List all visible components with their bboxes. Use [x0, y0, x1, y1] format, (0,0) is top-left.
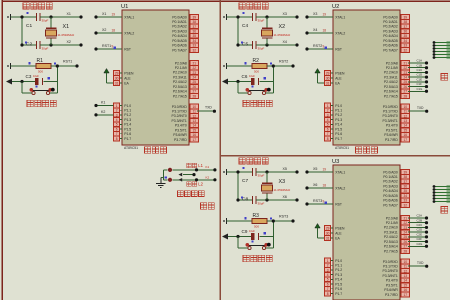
- svg-text:11.0592MHz: 11.0592MHz: [274, 188, 291, 192]
- svg-text:P0.0/AD0: P0.0/AD0: [383, 170, 398, 174]
- svg-text:P3.2/INT0: P3.2/INT0: [172, 114, 187, 118]
- wire net C2F from U3 P2.5: [408, 237, 428, 243]
- svg-text:C1B: C1B: [417, 63, 423, 67]
- svg-text:33: 33: [404, 199, 408, 203]
- svg-text:31: 31: [115, 81, 119, 85]
- svg-text:K2: K2: [101, 110, 105, 114]
- svg-text:XTAL2: XTAL2: [124, 31, 134, 35]
- net K1 label: [206, 165, 210, 169]
- net K2 label: [206, 175, 210, 179]
- svg-text:P2.4/A12: P2.4/A12: [173, 80, 187, 84]
- svg-text:P2.1/A9: P2.1/A9: [175, 66, 187, 70]
- svg-text:P0.4/AD4: P0.4/AD4: [383, 34, 398, 38]
- svg-text:2: 2: [327, 264, 329, 268]
- svg-text:P0.6/AD6: P0.6/AD6: [383, 199, 398, 203]
- svg-text:XTAL2: XTAL2: [335, 186, 345, 190]
- svg-text:P1.4: P1.4: [335, 278, 342, 282]
- svg-text:P3.6/WR: P3.6/WR: [384, 133, 398, 137]
- svg-text:P2.4/A12: P2.4/A12: [384, 235, 398, 239]
- svg-text:L1: L1: [198, 163, 203, 168]
- label: display (bottom): [441, 207, 448, 214]
- svg-text:39: 39: [404, 15, 408, 19]
- svg-text:P2.2/A10: P2.2/A10: [173, 71, 187, 75]
- wire net C2B from U3 P2.1: [408, 218, 428, 224]
- svg-text:15: 15: [404, 128, 408, 132]
- wire arrow to C6: [228, 80, 251, 83]
- svg-text:K1: K1: [206, 165, 210, 169]
- U2 label (MCU): [356, 147, 378, 153]
- svg-text:ALE: ALE: [124, 76, 131, 80]
- svg-text:C2E: C2E: [417, 232, 423, 236]
- svg-text:XTAL2: XTAL2: [335, 31, 345, 35]
- wire net C1D from U2 P2.3: [408, 73, 428, 79]
- svg-text:6: 6: [327, 282, 329, 286]
- svg-text:X3: X3: [313, 12, 317, 16]
- wire VCC to EA pin: [318, 82, 334, 84]
- svg-text:P1.3: P1.3: [335, 273, 342, 277]
- capacitor C8 30pF: [241, 196, 265, 205]
- wire net C1C from U2 P2.2: [408, 68, 428, 74]
- svg-text:14: 14: [193, 124, 197, 128]
- U2 pin stubs and pin numbers: [325, 15, 410, 142]
- U1 part number AT89C51: [124, 146, 138, 150]
- svg-text:37: 37: [404, 180, 408, 184]
- svg-text:P2.7/A15: P2.7/A15: [384, 94, 398, 98]
- wire to C8: [236, 198, 252, 201]
- svg-text:9: 9: [323, 200, 325, 204]
- wire net X3 to XTAL1: [305, 12, 333, 18]
- svg-text:X4: X4: [283, 40, 287, 44]
- wire net C1A from U2 P2.0: [408, 59, 428, 65]
- svg-text:P1.0: P1.0: [335, 104, 342, 108]
- svg-text:P3.5/T1: P3.5/T1: [386, 283, 398, 287]
- svg-text:P0.6/AD6: P0.6/AD6: [172, 44, 187, 48]
- svg-text:5: 5: [327, 123, 329, 127]
- svg-text:500: 500: [254, 70, 259, 74]
- svg-text:4: 4: [327, 118, 329, 122]
- svg-text:12: 12: [193, 114, 197, 118]
- svg-text:P0.3/AD3: P0.3/AD3: [383, 184, 398, 188]
- wire left branch vertical: [21, 82, 23, 94]
- svg-text:TXD: TXD: [417, 261, 424, 265]
- power terminal T1a: [7, 14, 10, 20]
- label: reset circuit (section 3): [243, 255, 272, 261]
- wire switch K1 row: [172, 168, 216, 171]
- svg-text:P2.0/A8: P2.0/A8: [175, 61, 187, 65]
- power terminal T3b: [223, 218, 226, 224]
- terminal arrow on K2 row: [178, 178, 182, 182]
- svg-text:1: 1: [116, 104, 118, 108]
- svg-text:RST3: RST3: [313, 199, 322, 203]
- svg-text:K1: K1: [101, 101, 105, 105]
- U2 part number AT89C51: [335, 146, 349, 150]
- svg-text:C6: C6: [242, 74, 248, 79]
- wire switch K2 row: [172, 178, 216, 181]
- svg-text:P0.5/AD5: P0.5/AD5: [172, 39, 187, 43]
- wire C5 to node X4: [256, 40, 299, 46]
- svg-text:10: 10: [193, 105, 197, 109]
- svg-text:15: 15: [193, 128, 197, 132]
- svg-text:C1: C1: [26, 23, 32, 29]
- partition line vertical: [219, 0, 221, 300]
- svg-text:34: 34: [193, 39, 197, 43]
- svg-text:7: 7: [116, 132, 118, 136]
- svg-text:P0.2/AD2: P0.2/AD2: [172, 25, 187, 29]
- svg-text:36: 36: [404, 184, 408, 188]
- svg-text:P1.4: P1.4: [124, 123, 131, 127]
- svg-text:P1.2: P1.2: [335, 268, 342, 272]
- svg-text:8: 8: [116, 137, 118, 141]
- svg-text:24: 24: [404, 230, 408, 234]
- svg-text:16: 16: [404, 288, 408, 292]
- svg-text:22: 22: [404, 221, 408, 225]
- svg-text:3: 3: [116, 113, 118, 117]
- svg-text:P0.7/AD7: P0.7/AD7: [383, 203, 398, 207]
- U3 pin stubs and pin numbers: [325, 170, 410, 297]
- wire net X4 to XTAL2: [305, 28, 333, 34]
- svg-text:P1.6: P1.6: [335, 287, 342, 291]
- svg-text:32: 32: [193, 48, 197, 52]
- wire C7 to node X5: [256, 167, 299, 173]
- wire net C2A from U3 P2.0: [408, 214, 428, 220]
- svg-text:30pF: 30pF: [258, 173, 265, 177]
- svg-text:P3.2/INT0: P3.2/INT0: [383, 114, 398, 118]
- svg-text:P1.6: P1.6: [335, 132, 342, 136]
- wire terminal to R1: [11, 65, 37, 67]
- crystal X2 11.0592MHz: [262, 17, 291, 45]
- svg-text:P2.6/A14: P2.6/A14: [384, 90, 398, 94]
- capacitor C7 30pF: [242, 167, 265, 184]
- svg-text:24: 24: [404, 75, 408, 79]
- wire net X1 to XTAL1: [94, 12, 122, 18]
- svg-text:P2.5/A13: P2.5/A13: [384, 85, 398, 89]
- switch K2 knob: [168, 178, 172, 182]
- svg-text:P2.2/A10: P2.2/A10: [384, 226, 398, 230]
- wire vertical branch: [236, 170, 239, 200]
- label: slave L1: [187, 163, 204, 168]
- wire C9 to right branch: [260, 236, 274, 238]
- svg-text:30pF: 30pF: [258, 201, 265, 205]
- svg-text:29: 29: [326, 71, 330, 75]
- label: reset circuit (section 2): [243, 100, 272, 106]
- svg-text:P2.0/A8: P2.0/A8: [386, 216, 398, 220]
- resistor R1 500: [28, 58, 56, 74]
- svg-text:1: 1: [327, 259, 329, 263]
- svg-text:27: 27: [193, 90, 197, 94]
- svg-text:XTAL1: XTAL1: [124, 15, 134, 19]
- svg-text:32: 32: [404, 203, 408, 207]
- svg-text:P3.0/RXD: P3.0/RXD: [383, 260, 399, 264]
- svg-text:2: 2: [116, 109, 118, 113]
- wire VCC to EA pin: [107, 82, 123, 84]
- svg-text:P0.0/AD0: P0.0/AD0: [172, 15, 187, 19]
- capacitor C2 30pF: [25, 41, 49, 50]
- svg-text:C1G: C1G: [417, 87, 423, 91]
- svg-text:6: 6: [327, 127, 329, 131]
- svg-text:7: 7: [327, 132, 329, 136]
- svg-text:34: 34: [404, 194, 408, 198]
- svg-text:C2D: C2D: [417, 228, 423, 232]
- svg-text:12: 12: [404, 269, 408, 273]
- wire terminal to R3: [227, 220, 253, 222]
- svg-text:P2.3/A11: P2.3/A11: [384, 230, 398, 234]
- capacitor C1 30pF: [26, 12, 49, 29]
- wire net X5 to XTAL1: [305, 167, 333, 173]
- svg-text:1: 1: [327, 104, 329, 108]
- svg-text:RST1: RST1: [102, 44, 111, 48]
- svg-text:X1: X1: [102, 12, 106, 16]
- svg-text:30: 30: [115, 76, 119, 80]
- svg-text:P2.4/A12: P2.4/A12: [384, 80, 398, 84]
- svg-text:XTAL1: XTAL1: [335, 15, 345, 19]
- wire terminal to R2: [227, 65, 253, 67]
- resistor R3 500: [244, 213, 272, 229]
- svg-text:28: 28: [193, 94, 197, 98]
- svg-text:34: 34: [404, 39, 408, 43]
- wire C4 to node X3: [256, 12, 299, 18]
- svg-text:18: 18: [112, 29, 116, 33]
- power terminal T1b: [7, 63, 10, 69]
- svg-text:RST3: RST3: [279, 215, 288, 219]
- svg-text:X2: X2: [67, 40, 71, 44]
- svg-text:RST: RST: [335, 47, 342, 51]
- svg-text:9: 9: [112, 45, 114, 49]
- wire C3 to right branch: [44, 81, 58, 83]
- svg-text:K2: K2: [206, 175, 210, 179]
- svg-text:3: 3: [327, 113, 329, 117]
- svg-text:37: 37: [404, 25, 408, 29]
- input terminal arrow (section 3): [222, 234, 228, 240]
- svg-text:C2C: C2C: [417, 223, 423, 227]
- svg-text:26: 26: [404, 85, 408, 89]
- wire net C1G from U2 P2.6: [408, 87, 428, 93]
- svg-text:P1.5: P1.5: [335, 127, 342, 131]
- svg-text:5: 5: [116, 123, 118, 127]
- svg-text:P1.2: P1.2: [124, 113, 131, 117]
- svg-text:18: 18: [323, 184, 327, 188]
- svg-text:PSEN: PSEN: [124, 71, 134, 75]
- svg-text:4: 4: [327, 273, 329, 277]
- svg-text:P3.7/RD: P3.7/RD: [174, 138, 187, 142]
- svg-text:P3.1/TXD: P3.1/TXD: [172, 110, 187, 114]
- reset button (section 2): [238, 85, 273, 94]
- svg-text:P1.0: P1.0: [335, 259, 342, 263]
- svg-text:P3.6/WR: P3.6/WR: [384, 288, 398, 292]
- svg-text:21: 21: [404, 61, 408, 65]
- power terminal T2b: [223, 63, 226, 69]
- svg-text:P2.3/A11: P2.3/A11: [384, 75, 398, 79]
- svg-text:21: 21: [404, 216, 408, 220]
- svg-text:12: 12: [404, 114, 408, 118]
- label: master: [201, 203, 215, 209]
- svg-text:U1: U1: [121, 4, 128, 10]
- input terminal arrow (section 1): [6, 79, 12, 85]
- svg-text:25: 25: [404, 80, 408, 84]
- svg-text:10: 10: [404, 260, 408, 264]
- U1 label (MCU): [145, 147, 167, 153]
- svg-text:P3.6/WR: P3.6/WR: [173, 133, 187, 137]
- input terminal arrow (section 2): [222, 79, 228, 85]
- ground symbol: [156, 178, 165, 188]
- svg-text:C2A: C2A: [417, 214, 423, 218]
- svg-text:38: 38: [193, 20, 197, 24]
- wire net C2E from U3 P2.4: [408, 232, 428, 238]
- svg-text:P3.0/RXD: P3.0/RXD: [383, 105, 399, 109]
- svg-text:11: 11: [404, 110, 408, 114]
- svg-text:P2.5/A13: P2.5/A13: [384, 240, 398, 244]
- svg-text:15: 15: [404, 283, 408, 287]
- svg-text:10uF: 10uF: [249, 229, 255, 233]
- svg-text:13: 13: [193, 119, 197, 123]
- svg-text:RST: RST: [335, 202, 342, 206]
- wire right branch vertical: [272, 219, 275, 248]
- label: display (top): [441, 74, 448, 81]
- svg-text:6: 6: [116, 127, 118, 131]
- svg-text:L2: L2: [198, 182, 203, 187]
- svg-text:C2G: C2G: [417, 242, 423, 246]
- svg-text:19: 19: [112, 13, 116, 17]
- wire right branch vertical: [56, 64, 59, 93]
- label: switch circuit: [178, 191, 205, 197]
- wire net K2 to U1 P1.2: [94, 110, 113, 116]
- svg-text:P1.4: P1.4: [335, 123, 342, 127]
- power VCC arrow (section 1): [104, 69, 109, 84]
- wire net K1 to U1 P1.0: [94, 101, 113, 107]
- svg-text:33: 33: [193, 44, 197, 48]
- svg-text:P2.6/A14: P2.6/A14: [384, 245, 398, 249]
- crystal X1 11.0592MHz: [46, 17, 75, 45]
- svg-text:35: 35: [404, 189, 408, 193]
- svg-text:4: 4: [116, 118, 118, 122]
- svg-text:C3: C3: [26, 74, 32, 79]
- svg-text:8: 8: [327, 292, 329, 296]
- capacitor C3 (electrolytic): [26, 74, 51, 85]
- svg-text:P0.7/AD7: P0.7/AD7: [172, 48, 187, 52]
- svg-text:P2.5/A13: P2.5/A13: [173, 85, 187, 89]
- svg-text:X2: X2: [279, 24, 286, 30]
- svg-text:AT89C51: AT89C51: [335, 146, 349, 150]
- sheet border left: [1, 0, 3, 300]
- svg-text:18: 18: [323, 29, 327, 33]
- svg-text:29: 29: [115, 71, 119, 75]
- wire R3 to node RST3: [267, 215, 295, 223]
- svg-text:RST: RST: [124, 47, 131, 51]
- power VCC arrow (section 2): [315, 69, 320, 84]
- svg-text:PSEN: PSEN: [335, 71, 345, 75]
- svg-text:C9: C9: [242, 229, 248, 234]
- capacitor C4 30pF: [242, 12, 265, 29]
- wire terminal to C1: [11, 16, 37, 18]
- svg-text:P1.2: P1.2: [335, 113, 342, 117]
- svg-text:26: 26: [404, 240, 408, 244]
- svg-text:36: 36: [404, 29, 408, 33]
- svg-text:29: 29: [326, 226, 330, 230]
- svg-text:5: 5: [327, 278, 329, 282]
- wire net C2C from U3 P2.2: [408, 223, 428, 229]
- wire C1 to node X1: [40, 12, 83, 18]
- svg-text:R2: R2: [253, 58, 260, 64]
- svg-text:16: 16: [404, 133, 408, 137]
- svg-text:14: 14: [404, 124, 408, 128]
- svg-text:11: 11: [404, 265, 408, 269]
- svg-text:C7: C7: [242, 178, 248, 184]
- svg-text:P2.6/A14: P2.6/A14: [173, 90, 187, 94]
- connector pins to display (top): [433, 41, 450, 59]
- wire to C2: [20, 43, 36, 46]
- svg-text:P1.1: P1.1: [124, 109, 131, 113]
- wire net C2G from U3 P2.6: [408, 242, 428, 248]
- svg-text:AT89C51: AT89C51: [124, 146, 138, 150]
- svg-text:P1.5: P1.5: [124, 127, 131, 131]
- terminal arrow row: [178, 173, 195, 177]
- svg-text:30pF: 30pF: [258, 18, 265, 22]
- svg-text:ALE: ALE: [335, 76, 342, 80]
- partition line horizontal: [220, 155, 450, 157]
- svg-text:P1.7: P1.7: [335, 292, 342, 296]
- svg-text:X3: X3: [283, 12, 287, 16]
- svg-text:23: 23: [193, 71, 197, 75]
- svg-text:C1C: C1C: [417, 68, 423, 72]
- svg-text:37: 37: [193, 25, 197, 29]
- wire net C1E from U2 P2.4: [408, 77, 428, 83]
- svg-text:C1D: C1D: [417, 73, 423, 77]
- svg-text:31: 31: [326, 236, 330, 240]
- svg-text:P3.0/RXD: P3.0/RXD: [172, 105, 188, 109]
- wire C8 to node X6: [256, 195, 299, 201]
- svg-text:P1.5: P1.5: [335, 282, 342, 286]
- crystal X3 11.0592MHz: [262, 172, 291, 200]
- svg-text:19: 19: [323, 168, 327, 172]
- svg-text:31: 31: [326, 81, 330, 85]
- svg-text:500: 500: [254, 225, 259, 229]
- svg-text:P0.5/AD5: P0.5/AD5: [383, 194, 398, 198]
- svg-text:P3.1/TXD: P3.1/TXD: [383, 265, 398, 269]
- label: reset circuit (section 1): [27, 100, 56, 106]
- reset button (section 1): [22, 85, 57, 94]
- svg-text:P3.4/T0: P3.4/T0: [386, 279, 398, 283]
- wire R2 to node RST2: [267, 60, 295, 68]
- svg-text:P3.2/INT0: P3.2/INT0: [383, 269, 398, 273]
- MCU U3 AT89C51 body: [332, 159, 400, 300]
- svg-text:P2.2/A10: P2.2/A10: [384, 71, 398, 75]
- svg-text:17: 17: [193, 138, 197, 142]
- svg-text:32: 32: [404, 48, 408, 52]
- svg-text:P2.1/A9: P2.1/A9: [386, 66, 398, 70]
- svg-text:P3.1/TXD: P3.1/TXD: [383, 110, 398, 114]
- svg-text:22: 22: [193, 66, 197, 70]
- svg-text:27: 27: [404, 90, 408, 94]
- svg-text:11.0592MHz: 11.0592MHz: [274, 33, 291, 37]
- svg-text:10uF: 10uF: [249, 74, 255, 78]
- wire arrow to C3: [12, 80, 35, 83]
- svg-text:R1: R1: [37, 58, 44, 64]
- svg-text:C4: C4: [242, 23, 248, 29]
- label: crystal oscillator circuit (section 1): [23, 3, 52, 9]
- svg-text:17: 17: [404, 293, 408, 297]
- wire terminal to C7: [227, 171, 253, 173]
- capacitor C5 30pF: [241, 41, 265, 50]
- wire net TXD from U1 P3.1: [197, 106, 216, 113]
- resistor R2 500: [244, 58, 272, 74]
- svg-text:X1: X1: [63, 24, 70, 30]
- svg-text:RST2: RST2: [279, 60, 288, 64]
- svg-text:P3.3/INT1: P3.3/INT1: [172, 119, 187, 123]
- svg-text:X5: X5: [283, 167, 287, 171]
- svg-text:P1.3: P1.3: [335, 118, 342, 122]
- svg-text:P0.4/AD4: P0.4/AD4: [172, 34, 187, 38]
- MCU U2 AT89C51 body: [332, 4, 400, 145]
- capacitor C6 (electrolytic): [242, 74, 267, 85]
